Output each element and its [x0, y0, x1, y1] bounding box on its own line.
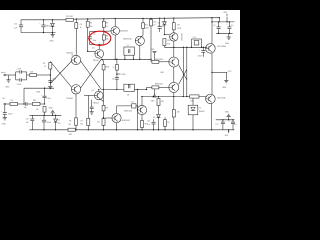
svg-text:D3: D3: [199, 107, 201, 109]
svg-text:MJL3281A: MJL3281A: [218, 45, 227, 48]
svg-text:Q3: Q3: [92, 48, 94, 50]
svg-text:1k: 1k: [44, 66, 46, 68]
svg-text:MJL1302A: MJL1302A: [217, 97, 226, 100]
svg-text:D6: D6: [158, 22, 160, 24]
svg-text:2N5401: 2N5401: [93, 102, 99, 104]
svg-text:6k8: 6k8: [167, 44, 170, 46]
svg-text:C11: C11: [193, 37, 196, 39]
svg-text:R6: R6: [106, 36, 108, 38]
svg-text:GND: GND: [222, 87, 227, 89]
svg-text:R18: R18: [167, 40, 170, 42]
svg-text:100p: 100p: [93, 40, 97, 42]
svg-text:MJE15032: MJE15032: [122, 120, 130, 122]
svg-text:Q5: Q5: [92, 90, 94, 92]
svg-text:D2: D2: [58, 120, 60, 122]
svg-text:R17: R17: [177, 24, 180, 26]
svg-text:C8: C8: [127, 94, 129, 96]
svg-text:6k8: 6k8: [30, 71, 33, 73]
svg-text:R3: R3: [80, 24, 82, 26]
svg-text:MJE15031: MJE15031: [155, 84, 163, 86]
svg-text:100uF: 100uF: [198, 56, 203, 58]
svg-text:C16: C16: [26, 119, 29, 121]
svg-text:100n: 100n: [52, 78, 56, 80]
svg-text:1uF: 1uF: [26, 122, 29, 124]
svg-text:2.2uF: 2.2uF: [17, 84, 21, 86]
svg-text:R4: R4: [90, 23, 92, 25]
svg-text:2N5401: 2N5401: [66, 98, 73, 100]
svg-text:10p: 10p: [24, 107, 27, 109]
svg-text:C7: C7: [127, 45, 129, 47]
svg-text:C9: C9: [213, 25, 215, 27]
svg-text:C12: C12: [131, 102, 134, 104]
svg-text:C5: C5: [113, 67, 115, 69]
svg-text:2.2uF: 2.2uF: [17, 69, 21, 71]
svg-text:680uF: 680uF: [46, 25, 51, 27]
svg-text:GND: GND: [49, 108, 54, 110]
svg-text:D4: D4: [153, 117, 155, 119]
svg-text:47k: 47k: [36, 109, 39, 111]
svg-text:C4: C4: [93, 34, 95, 36]
svg-text:2k2: 2k2: [97, 122, 100, 124]
svg-text:22k: 22k: [80, 124, 83, 126]
svg-text:R23 10R: R23 10R: [66, 16, 73, 18]
svg-text:1k: 1k: [80, 27, 82, 29]
svg-text:MJE15030: MJE15030: [123, 38, 132, 40]
svg-text:22k: 22k: [68, 124, 71, 126]
svg-text:GND: GND: [122, 74, 127, 76]
svg-text:GND: GND: [225, 43, 230, 45]
svg-text:220uF: 220uF: [46, 122, 51, 124]
svg-text:+: +: [199, 49, 200, 51]
svg-text:R5: R5: [106, 22, 108, 24]
svg-text:+: +: [226, 24, 227, 26]
svg-text:MJE15030: MJE15030: [155, 59, 163, 61]
svg-text:R10: R10: [145, 24, 148, 26]
svg-text:22k: 22k: [10, 100, 13, 102]
svg-text:D5: D5: [167, 122, 169, 124]
svg-text:22k: 22k: [106, 39, 109, 41]
svg-text:GND: GND: [5, 87, 10, 89]
svg-text:R2: R2: [43, 63, 45, 65]
svg-text:47u: 47u: [234, 124, 237, 126]
svg-text:2N5401: 2N5401: [66, 52, 73, 54]
svg-text:MJE15030: MJE15030: [124, 110, 132, 112]
svg-text:MJE15031: MJE15031: [180, 33, 182, 41]
svg-text:R9: R9: [69, 121, 71, 123]
svg-text:0R1: 0R1: [161, 101, 164, 103]
svg-text:GND: GND: [50, 41, 55, 43]
svg-text:Input: Input: [1, 71, 6, 74]
svg-text:100uF: 100uF: [8, 114, 13, 116]
svg-text:+35V: +35V: [223, 12, 228, 14]
svg-text:2N5401: 2N5401: [93, 60, 99, 62]
svg-text:R6: R6: [3, 98, 5, 100]
svg-text:680: 680: [33, 100, 36, 102]
svg-text:47u: 47u: [231, 25, 234, 27]
svg-text:GND: GND: [2, 123, 7, 125]
svg-text:C6: C6: [162, 26, 164, 28]
svg-text:1k: 1k: [106, 26, 108, 28]
svg-text:R7: R7: [81, 120, 83, 122]
svg-text:2.2uF: 2.2uF: [47, 98, 51, 100]
svg-text:+: +: [229, 121, 230, 123]
svg-text:C10: C10: [14, 24, 17, 26]
svg-text:GND: GND: [225, 111, 230, 113]
svg-text:1N4004: 1N4004: [199, 111, 205, 113]
svg-text:0.1u: 0.1u: [215, 124, 218, 126]
svg-text:Q1: Q1: [71, 54, 73, 56]
svg-text:C13: C13: [147, 120, 150, 122]
svg-text:10n: 10n: [112, 78, 115, 80]
svg-text:GND: GND: [36, 92, 41, 94]
svg-text:1uF: 1uF: [147, 124, 150, 126]
svg-text:1uF: 1uF: [14, 27, 17, 29]
svg-text:MJE15031: MJE15031: [120, 31, 129, 33]
svg-text:+: +: [41, 95, 42, 97]
svg-text:560: 560: [90, 26, 93, 28]
